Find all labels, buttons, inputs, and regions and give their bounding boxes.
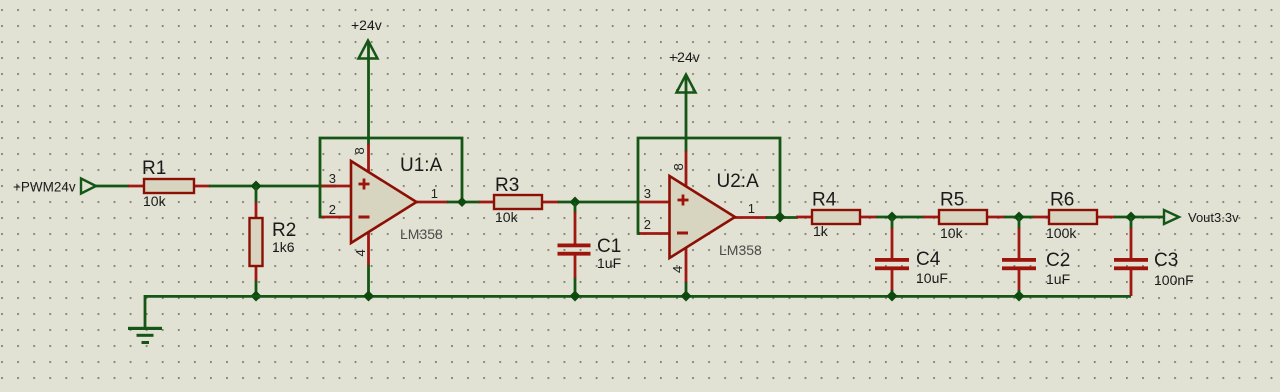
wire bus to ground symbol (144, 295, 147, 328)
wire junction to R2 (255, 186, 258, 203)
junction node R6/C3/Vout (1126, 212, 1137, 223)
svg-text:1: 1 (431, 186, 438, 201)
output terminal Vout (1164, 210, 1179, 224)
junction U1 output node (457, 197, 467, 207)
svg-text:R4: R4 (812, 190, 837, 211)
svg-text:3: 3 (329, 171, 336, 186)
ground (128, 327, 162, 344)
power +24v symbol (U1) (359, 41, 378, 59)
junction C4 on bus (887, 291, 898, 302)
svg-text:C3: C3 (1154, 250, 1178, 271)
junction R2 on ground bus (251, 291, 262, 302)
resistor R6 (1033, 210, 1115, 224)
svg-text:10k: 10k (940, 225, 964, 241)
svg-text:8: 8 (671, 163, 686, 170)
svg-text:10k: 10k (495, 209, 519, 225)
junction node R3/C1/U2+ (570, 197, 581, 208)
capacitor C3 (1114, 217, 1148, 296)
svg-text:C4: C4 (916, 249, 941, 270)
wire C1 to bus (574, 278, 577, 296)
wire R4 to R5 (876, 216, 924, 219)
wire C2 to bus (1018, 290, 1021, 296)
svg-text:R6: R6 (1050, 190, 1074, 211)
op-amp U2 (638, 151, 767, 283)
wire U1 pin4 to bus (367, 265, 370, 296)
input terminal PWM (81, 179, 96, 194)
svg-text:LM358: LM358 (719, 242, 762, 258)
power +24v symbol (U2) (677, 75, 696, 93)
svg-text:2: 2 (644, 217, 651, 232)
svg-text:100k: 100k (1046, 225, 1077, 241)
svg-text:1k: 1k (813, 223, 829, 239)
capacitor C1 (558, 202, 591, 279)
junction C2 on bus (1014, 291, 1025, 302)
svg-text:R5: R5 (940, 190, 964, 211)
junction node R4/C4/R5 (887, 212, 898, 223)
svg-text:10uF: 10uF (916, 270, 948, 286)
svg-text:100nF: 100nF (1154, 272, 1194, 288)
wire R5 to R6 (1004, 216, 1034, 219)
svg-text:8: 8 (352, 147, 367, 154)
wire +24v to U1 pin8 (367, 42, 370, 145)
wire R3 to U2 pin3 (558, 201, 639, 204)
svg-text:1uF: 1uF (597, 255, 621, 271)
svg-text:4: 4 (353, 249, 368, 256)
resistor R2 (250, 202, 263, 282)
svg-text:2: 2 (329, 202, 336, 217)
junction U1 pin4 on bus (363, 291, 374, 302)
svg-text:R2: R2 (272, 220, 296, 241)
junction U2 pin4 on bus (681, 291, 692, 302)
svg-text:3: 3 (644, 186, 651, 201)
junction U2 output node (775, 212, 786, 223)
wire R1 to U1 pin3 (209, 185, 336, 188)
svg-text:1: 1 (748, 201, 755, 216)
wire R2 to ground bus (255, 281, 258, 296)
svg-text:R1: R1 (142, 158, 166, 179)
svg-text:LM358: LM358 (400, 226, 443, 242)
svg-text:C2: C2 (1046, 250, 1070, 271)
capacitor C4 (875, 217, 909, 291)
resistor R1 (128, 179, 210, 193)
junction node R5/C2/R6 (1014, 212, 1025, 223)
svg-text:+24v: +24v (669, 49, 700, 65)
svg-text:R3: R3 (495, 175, 519, 196)
svg-text:+24v: +24v (351, 17, 382, 33)
wire U1 output (447, 201, 480, 204)
wire U2 feedback loop (638, 138, 780, 234)
svg-text:U2:A: U2:A (717, 171, 760, 192)
resistor R3 (479, 195, 559, 209)
svg-text:+PWM24v: +PWM24v (13, 180, 76, 195)
svg-text:C1: C1 (597, 236, 621, 257)
resistor R4 (796, 210, 877, 224)
op-amp U1 (319, 144, 448, 266)
resistor R5 (923, 210, 1005, 224)
capacitor C2 (1002, 217, 1036, 291)
svg-text:1k6: 1k6 (272, 239, 295, 255)
svg-text:U1:A: U1:A (400, 155, 443, 176)
svg-text:4: 4 (670, 266, 685, 273)
wire C4 to bus (891, 290, 894, 296)
svg-text:1uF: 1uF (1046, 271, 1070, 287)
wire input to R1 (96, 185, 129, 188)
wire U2 output (766, 216, 798, 219)
wire U1 feedback loop (320, 138, 462, 217)
junction C1 on bus (570, 291, 581, 302)
wire U2 pin4 to bus (685, 282, 688, 296)
svg-text:10k: 10k (143, 193, 167, 209)
svg-text:Vout3.3v: Vout3.3v (1188, 210, 1239, 225)
junction node R1/R2/U1+ (251, 181, 262, 192)
ground bus wire (145, 295, 1131, 298)
wire R6 to output (1114, 216, 1164, 219)
wire +24v to U2 pin8 (685, 76, 688, 152)
